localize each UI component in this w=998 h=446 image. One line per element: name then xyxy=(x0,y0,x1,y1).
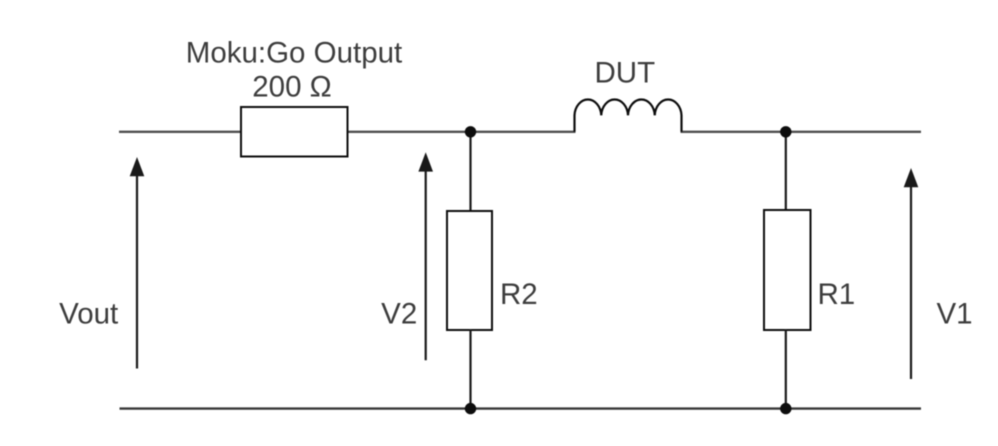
node junction bottom-right xyxy=(780,403,791,414)
node junction top-left xyxy=(465,126,476,137)
wire top-right segment xyxy=(681,131,922,133)
resistor R2 xyxy=(447,211,492,330)
svg-text:R2: R2 xyxy=(500,278,538,311)
wire R2 top vertical xyxy=(469,132,471,212)
wire top-middle segment xyxy=(347,131,576,133)
wire R2 bottom vertical xyxy=(469,329,471,409)
inductor DUT xyxy=(575,100,682,132)
wire R1 top vertical xyxy=(785,132,787,211)
svg-text:V1: V1 xyxy=(936,298,972,331)
svg-text:DUT: DUT xyxy=(594,56,655,89)
wire R1 bottom vertical xyxy=(785,329,787,409)
resistor R1 xyxy=(764,210,811,330)
wire bottom (ground rail) xyxy=(120,407,922,409)
resistor 200 Ω (Moku:Go Output) xyxy=(241,107,348,157)
svg-text:R1: R1 xyxy=(818,278,856,311)
wire top-left segment xyxy=(119,131,242,133)
arrow Vout xyxy=(130,157,145,369)
svg-text:Vout: Vout xyxy=(59,298,118,331)
svg-text:200 Ω: 200 Ω xyxy=(252,70,331,103)
arrow V1 xyxy=(904,168,919,379)
svg-text:Moku:Go Output: Moku:Go Output xyxy=(186,37,402,70)
node junction bottom-left xyxy=(465,403,476,414)
node junction top-right xyxy=(780,126,791,137)
svg-text:V2: V2 xyxy=(381,298,417,331)
arrow V2 xyxy=(418,152,433,360)
